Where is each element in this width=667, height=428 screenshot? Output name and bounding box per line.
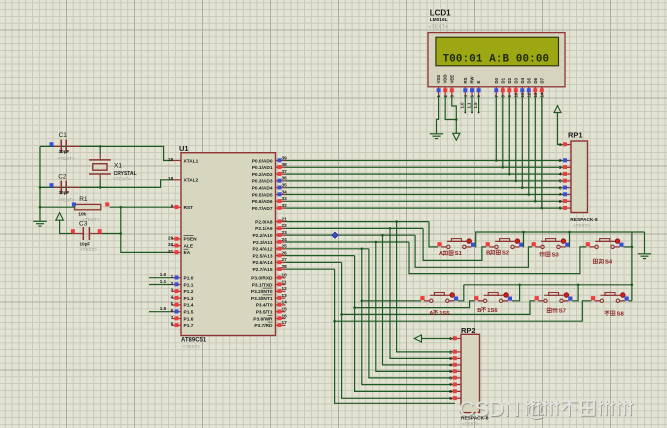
svg-text:<TEXT>: <TEXT>	[114, 177, 131, 182]
svg-text:9: 9	[171, 204, 174, 209]
wire S5 right riser	[458, 285, 464, 301]
RP1 pin 4	[566, 173, 572, 175]
svg-text:11: 11	[282, 279, 287, 284]
U1 pin 16 (P3.6/WR)	[276, 318, 286, 320]
svg-text:P2.1/A9: P2.1/A9	[255, 226, 273, 232]
U1 pin 26 (P2.5/A13)	[276, 255, 286, 257]
wire ground vertical right	[631, 232, 633, 301]
svg-text:LM016L: LM016L	[430, 17, 448, 23]
wire P0.6 to RP1 pin 8	[286, 200, 564, 202]
svg-text:P2.2/A10: P2.2/A10	[252, 233, 272, 239]
capacitor C2	[54, 186, 61, 188]
junction P2.3 / RP2 branch	[375, 241, 378, 244]
svg-text:3: 3	[559, 165, 562, 170]
wire S5 rail	[362, 300, 421, 302]
svg-text:VEE: VEE	[449, 75, 454, 84]
svg-text:B: B	[477, 308, 481, 314]
svg-text:1S6: 1S6	[487, 308, 498, 314]
svg-text:ALE: ALE	[184, 244, 194, 250]
U1 pin 7 (P1.6)	[172, 318, 182, 320]
label S3	[540, 252, 545, 256]
svg-text:33: 33	[282, 196, 288, 201]
wire S6 rail	[355, 301, 475, 308]
push button 1S6	[474, 296, 478, 300]
svg-text:30pF: 30pF	[59, 149, 70, 154]
junction row2 rail	[631, 284, 634, 287]
svg-text:1.1: 1.1	[466, 102, 471, 109]
svg-text:CSDN @: CSDN @	[459, 397, 548, 421]
svg-text:2: 2	[171, 281, 174, 286]
U1 pin 2 (P1.1)	[172, 284, 182, 286]
svg-text:D4: D4	[520, 77, 525, 83]
svg-text:P0.1/AD1: P0.1/AD1	[252, 165, 273, 171]
junction S4	[631, 246, 634, 249]
svg-text:27: 27	[282, 257, 288, 262]
svg-text:24: 24	[282, 237, 288, 242]
U1 pin 5 (P1.4)	[172, 304, 182, 306]
svg-text:B: B	[486, 251, 490, 257]
svg-text:1.0: 1.0	[160, 272, 167, 277]
svg-text:10pF: 10pF	[80, 241, 91, 246]
svg-text:X1: X1	[114, 163, 122, 170]
wire S3 right riser	[568, 232, 570, 247]
U1 pin 24 (P2.3/A11)	[276, 241, 286, 243]
RP2 pin 2	[456, 351, 462, 353]
svg-text:RP1: RP1	[568, 131, 583, 140]
LCD1 body	[428, 33, 565, 87]
svg-text:14: 14	[282, 300, 288, 305]
svg-text:P0.5/AD5: P0.5/AD5	[252, 192, 273, 198]
wire P2.7 vertical	[335, 269, 455, 403]
svg-text:D0: D0	[494, 77, 499, 83]
wire LCD D5 to P0.5	[528, 96, 530, 195]
power +5V arrow RP1	[554, 106, 561, 113]
svg-text:5: 5	[171, 301, 174, 306]
wire RST net	[40, 206, 75, 208]
U1 pin 33 (P0.6/AD6)	[276, 200, 286, 202]
svg-text:1.1: 1.1	[160, 279, 167, 284]
svg-text:P0.0/AD0: P0.0/AD0	[252, 158, 273, 164]
LCD1 screen	[436, 37, 559, 66]
wire P2.0 horizontal	[286, 221, 430, 223]
svg-text:38: 38	[282, 162, 288, 167]
ground symbol LCD	[430, 133, 443, 135]
RP1 pin 9	[566, 207, 572, 209]
wire P2.4 to RP2 pin6	[369, 249, 454, 378]
RP1 pin 2	[566, 160, 572, 162]
power +5V arrow near C3	[56, 213, 64, 221]
wire P2.0 to button S1	[429, 222, 438, 247]
wire S4 right to vertical	[624, 246, 632, 248]
U1 pin 12 (P3.2/INT0)	[276, 290, 286, 292]
svg-text:1.0: 1.0	[460, 102, 465, 109]
label S7	[547, 308, 551, 313]
svg-text:XTAL1: XTAL1	[184, 158, 199, 164]
svg-text:P1.7: P1.7	[184, 323, 194, 329]
junction P2.2 / RP2 branch	[381, 234, 384, 237]
svg-text:4: 4	[449, 363, 452, 368]
junction S6 rail	[353, 306, 356, 309]
wire P0.5 to RP1 pin 7	[286, 194, 564, 196]
svg-text:25: 25	[282, 244, 288, 249]
svg-text:28: 28	[282, 264, 288, 269]
svg-text:P2.5/A13: P2.5/A13	[252, 253, 272, 259]
svg-text:P2.4/A12: P2.4/A12	[252, 247, 272, 253]
svg-text:4: 4	[559, 172, 562, 177]
svg-text:<TEXT>: <TEXT>	[80, 247, 97, 252]
wire LCD RS net label 1.0	[464, 96, 466, 113]
wire C1 right lead	[80, 145, 100, 147]
svg-text:6: 6	[449, 376, 452, 381]
junction X1 top	[99, 145, 102, 148]
svg-text:RS: RS	[463, 77, 468, 83]
svg-text:1.5: 1.5	[473, 102, 478, 109]
svg-text:31: 31	[168, 249, 174, 254]
svg-text:P1.4: P1.4	[184, 303, 194, 309]
svg-text:D7: D7	[539, 77, 544, 83]
U1 pin 25 (P2.4/A12)	[276, 248, 286, 250]
svg-text:P0.6/AD6: P0.6/AD6	[252, 199, 273, 205]
svg-text:P2.7/A15: P2.7/A15	[252, 267, 272, 273]
svg-text:R1: R1	[79, 196, 88, 203]
push button 1S5	[420, 296, 424, 300]
svg-text:P3.0/RXD: P3.0/RXD	[251, 276, 273, 282]
svg-text:22: 22	[282, 223, 288, 228]
svg-text:C2: C2	[58, 173, 67, 180]
junction RST-EA vertical	[120, 206, 123, 209]
U1 pin 6 (P1.5)	[172, 311, 182, 313]
RP1 pin 7	[566, 194, 572, 196]
svg-text:37: 37	[282, 169, 288, 174]
wire P0.2 to RP1 pin 4	[286, 173, 564, 175]
svg-text:18: 18	[168, 176, 174, 181]
svg-text:21: 21	[282, 216, 288, 221]
svg-text:6: 6	[559, 185, 562, 190]
U1 pin 36 (P0.3/AD3)	[276, 180, 286, 182]
wire P0.0 to RP1 pin 2	[286, 160, 564, 162]
push button S8	[591, 296, 595, 300]
wire P0.3 to RP1 pin 5	[286, 180, 564, 182]
op-amp U1 body (AT89C51 MCU)	[181, 153, 276, 336]
junction S2 riser	[522, 231, 525, 234]
svg-text:S8: S8	[617, 311, 625, 317]
wire row2 ground rail	[464, 284, 632, 286]
wire P1.0 net label	[149, 277, 172, 279]
U1 pin 27 (P2.6/A14)	[276, 261, 286, 263]
wire C2 right lead	[80, 186, 100, 188]
U1 pin 14 (P3.4/T0)	[276, 304, 286, 306]
svg-text:3: 3	[171, 288, 174, 293]
wire LCD D2 to P0.2	[508, 96, 510, 175]
svg-text:P0.4/AD4: P0.4/AD4	[252, 186, 273, 192]
svg-text:9: 9	[559, 206, 562, 211]
wire P2.3 to RP2 pin 5	[376, 242, 454, 371]
crystal X1	[99, 146, 101, 154]
svg-text:S3: S3	[552, 252, 560, 258]
wire LCD RW net label 1.1	[471, 96, 473, 113]
svg-text:30: 30	[168, 242, 174, 247]
svg-text:8: 8	[449, 389, 452, 394]
capacitor C3	[72, 233, 83, 235]
wire ground rail to ground symbol	[644, 232, 646, 253]
RP1 pin 1	[566, 144, 572, 146]
U1 pin 13 (P3.3/INT1)	[276, 297, 286, 299]
wire P2.3 horizontal	[286, 241, 410, 243]
U1 pin 3 (P1.2)	[172, 290, 182, 292]
push button S7	[535, 296, 539, 300]
wire C2 row to XTAL2	[40, 180, 172, 188]
wire LCD D4 to P0.4	[521, 96, 523, 188]
wire LCD D3 to P0.3	[515, 96, 517, 181]
svg-text:P1.3: P1.3	[184, 296, 194, 302]
ground symbol buttons	[638, 253, 651, 255]
svg-text:P2.6/A14: P2.6/A14	[252, 260, 272, 266]
U1 pin 8 (P1.7)	[172, 324, 182, 326]
U1 pin 34 (P0.5/AD5)	[276, 194, 286, 196]
svg-text:1S5: 1S5	[439, 311, 450, 317]
junction S8 rail	[333, 320, 336, 323]
svg-text:10: 10	[282, 273, 288, 278]
svg-text:U1: U1	[179, 144, 189, 153]
svg-text:P1.2: P1.2	[184, 289, 194, 295]
U1 pin 31 (EA)	[172, 251, 182, 253]
wire LCD VSS to ground	[437, 96, 439, 134]
svg-text:6: 6	[171, 308, 174, 313]
svg-text:P1.1: P1.1	[184, 282, 194, 288]
svg-text:RST: RST	[184, 205, 194, 211]
wire P2.0 to RP2 pin 2	[397, 222, 454, 352]
svg-text:8: 8	[171, 322, 174, 327]
svg-text:<TEXT>: <TEXT>	[429, 25, 448, 31]
ground symbol left	[33, 220, 47, 222]
svg-text:5: 5	[449, 369, 452, 374]
svg-text:S7: S7	[559, 309, 566, 315]
svg-text:S2: S2	[502, 251, 509, 257]
RP2 pin 3	[456, 357, 462, 359]
svg-text:D3: D3	[513, 77, 518, 83]
push button S3	[532, 242, 536, 246]
resistor R1	[75, 204, 101, 209]
svg-text:7: 7	[449, 382, 452, 387]
svg-text:2: 2	[559, 158, 562, 163]
junction RST row left	[39, 206, 42, 209]
RP2 pin 5	[456, 370, 462, 372]
RP2 pin 8	[456, 390, 462, 392]
svg-text:4: 4	[171, 295, 174, 300]
wire P2.1 to button S2	[423, 228, 486, 260]
svg-text:13: 13	[282, 293, 288, 298]
wire ground rail left	[39, 146, 41, 220]
svg-text:9: 9	[449, 396, 452, 401]
U1 pin 29 (PSEN)	[172, 238, 182, 240]
wire P0.4 to RP1 pin 6	[286, 187, 564, 189]
svg-text:D5: D5	[526, 77, 531, 83]
svg-text:P3.5/T1: P3.5/T1	[256, 310, 273, 316]
junction S6 riser	[518, 284, 521, 287]
junction S7 riser	[577, 284, 580, 287]
RP1 pin 5	[566, 180, 572, 182]
wire LCD E net label 1.5	[478, 96, 480, 113]
U1 pin 11 (P3.1/TXD)	[276, 284, 286, 286]
wire P2.4 branch to S5 and RP2 pin7	[362, 249, 454, 385]
RP2 pin 7	[456, 384, 462, 386]
U1 pin 17 (P3.7/RD)	[276, 324, 286, 326]
svg-text:<TEXT>: <TEXT>	[58, 156, 75, 161]
svg-text:7: 7	[171, 315, 174, 320]
wire VCC to C3	[60, 220, 72, 233]
wire P2.6 horizontal	[286, 261, 342, 263]
svg-text:LCD1: LCD1	[430, 9, 451, 18]
wire RP2 pin1 to power	[422, 338, 454, 340]
svg-text:P3.4/T0: P3.4/T0	[256, 303, 273, 309]
wire LCD VEE jog	[452, 96, 457, 134]
junction P2.0 / RP2 branch	[395, 220, 398, 223]
label S8	[605, 311, 610, 315]
RP2 pin 1	[456, 338, 462, 340]
U1 pin 21 (P2.0/A8)	[276, 221, 286, 223]
svg-text:EA: EA	[184, 250, 191, 256]
U1 pin 39 (P0.0/AD0)	[276, 160, 286, 162]
RP1 pin 6	[566, 187, 572, 189]
wire P1.5 net label	[149, 311, 172, 313]
junction P2.4	[361, 248, 364, 251]
power arrow left RP2	[414, 335, 421, 342]
svg-text:<TEXT>: <TEXT>	[573, 223, 590, 228]
wire C1 row to XTAL1	[40, 146, 172, 160]
svg-text:VSS: VSS	[436, 75, 441, 84]
push button S4	[586, 242, 590, 246]
RP2 pin 6	[456, 377, 462, 379]
wire C3 to RST vertical	[102, 233, 121, 235]
U1 pin 4 (P1.3)	[172, 297, 182, 299]
svg-text:S4: S4	[605, 260, 613, 266]
RP1 pin 8	[566, 200, 572, 202]
push button S2	[486, 242, 490, 246]
svg-text:D1: D1	[500, 77, 505, 83]
wire P0.7 to RP1 pin 9	[286, 207, 564, 209]
node marker on P2.2 wire	[332, 232, 338, 238]
wire LCD D1 to P0.1	[502, 96, 504, 168]
wire S6 right riser	[512, 285, 520, 301]
junction S5 rail	[361, 300, 364, 303]
U1 pin 22 (P2.1/A9)	[276, 227, 286, 229]
wire LCD D6 to P0.6	[534, 96, 536, 202]
RP1 pin 3	[566, 166, 572, 168]
svg-text:32: 32	[282, 203, 288, 208]
svg-text:AT89C51: AT89C51	[181, 338, 207, 344]
wire P2.1 to RP2 pin 3	[390, 228, 454, 358]
junction P2.1 / RP2 branch	[389, 227, 392, 230]
U1 pin 35 (P0.4/AD4)	[276, 187, 286, 189]
wire S7 right riser	[572, 285, 578, 301]
svg-text:C3: C3	[79, 221, 88, 228]
wire P2.5 horizontal	[286, 255, 355, 257]
U1 pin 15 (P3.5/T1)	[276, 311, 286, 313]
svg-text:D2: D2	[507, 77, 512, 83]
U1 pin 18 (XTAL2)	[172, 179, 182, 181]
junction C2 row	[39, 186, 42, 189]
svg-text:P1.0: P1.0	[184, 276, 194, 282]
svg-text:3: 3	[449, 356, 452, 361]
wire LCD D0 to P0.0	[495, 96, 497, 161]
junction VDD/VEE	[455, 118, 458, 121]
wire S2 right riser	[522, 232, 524, 247]
wire P2.2 to RP2 pin 4	[383, 235, 454, 365]
svg-text:5: 5	[559, 179, 562, 184]
svg-text:16: 16	[282, 313, 288, 318]
wire P2.2 horizontal	[286, 234, 416, 236]
svg-text:34: 34	[282, 189, 288, 194]
svg-text:15: 15	[282, 307, 288, 312]
svg-text:P3.3/INT1: P3.3/INT1	[251, 296, 273, 302]
svg-text:<TEXT>: <TEXT>	[183, 344, 200, 349]
wire P2.6 vertical to RP2 pin9	[342, 262, 454, 398]
svg-text:P3.6/WR: P3.6/WR	[253, 316, 273, 322]
wire P0.1 to RP1 pin 3	[286, 166, 564, 168]
svg-text:19: 19	[168, 157, 174, 162]
wire P2.7 horizontal	[286, 268, 335, 270]
wire P2.3 to button S4	[409, 242, 586, 274]
svg-text:P1.5: P1.5	[184, 310, 194, 316]
U1 pin 23 (P2.2/A10)	[276, 234, 286, 236]
svg-text:36: 36	[282, 176, 288, 181]
wire RST to EA vertical	[121, 207, 172, 252]
wire P2.4 horizontal	[286, 248, 369, 250]
svg-text:E: E	[476, 81, 481, 84]
svg-text:12: 12	[282, 286, 288, 291]
svg-text:P0.7/AD7: P0.7/AD7	[252, 206, 273, 212]
wire S8 right	[629, 300, 632, 302]
svg-text:P3.2/INT0: P3.2/INT0	[251, 289, 273, 295]
svg-text:8: 8	[559, 199, 562, 204]
U1 pin 37 (P0.2/AD2)	[276, 173, 286, 175]
wire LCD D7 to P0.7	[541, 96, 543, 209]
watermark CJK glyphs	[525, 401, 633, 416]
U1 pin 30 (ALE)	[172, 245, 182, 247]
svg-text:P0.2/AD2: P0.2/AD2	[252, 172, 273, 178]
svg-text:23: 23	[282, 230, 288, 235]
svg-text:17: 17	[282, 320, 288, 325]
U1 pin 32 (P0.7/AD7)	[276, 207, 286, 209]
wire S7 rail	[342, 301, 535, 315]
svg-text:30pF: 30pF	[59, 190, 70, 195]
power arrow down LCD	[453, 133, 460, 140]
U1 pin 10 (P3.0/RXD)	[276, 277, 286, 279]
junction S7 rail	[340, 313, 343, 316]
svg-text:1: 1	[171, 274, 174, 279]
svg-text:S1: S1	[455, 251, 463, 257]
svg-text:P0.3/AD3: P0.3/AD3	[252, 179, 273, 185]
junction S3 riser	[568, 231, 571, 234]
svg-text:D6: D6	[533, 77, 538, 83]
svg-text:7: 7	[559, 192, 562, 197]
svg-text:<TEXT>: <TEXT>	[58, 197, 75, 202]
svg-text:35: 35	[282, 183, 288, 188]
U1 pin 38 (P0.1/AD1)	[276, 166, 286, 168]
svg-text:PSEN: PSEN	[184, 237, 198, 243]
svg-text:39: 39	[282, 155, 288, 160]
svg-text:P2.0/A8: P2.0/A8	[255, 219, 273, 225]
junction X1 bottom	[99, 186, 102, 189]
RP2 pin 9	[456, 397, 462, 399]
svg-text:VDD: VDD	[443, 74, 448, 83]
svg-text:T00:01 A:B 00:00: T00:01 A:B 00:00	[443, 54, 550, 66]
svg-text:C1: C1	[59, 132, 68, 139]
RP2 pin 4	[456, 364, 462, 366]
wire P2.5 vertical to RP2 pin8	[355, 256, 454, 392]
push button S1	[437, 242, 441, 246]
svg-text:RW: RW	[470, 75, 475, 83]
